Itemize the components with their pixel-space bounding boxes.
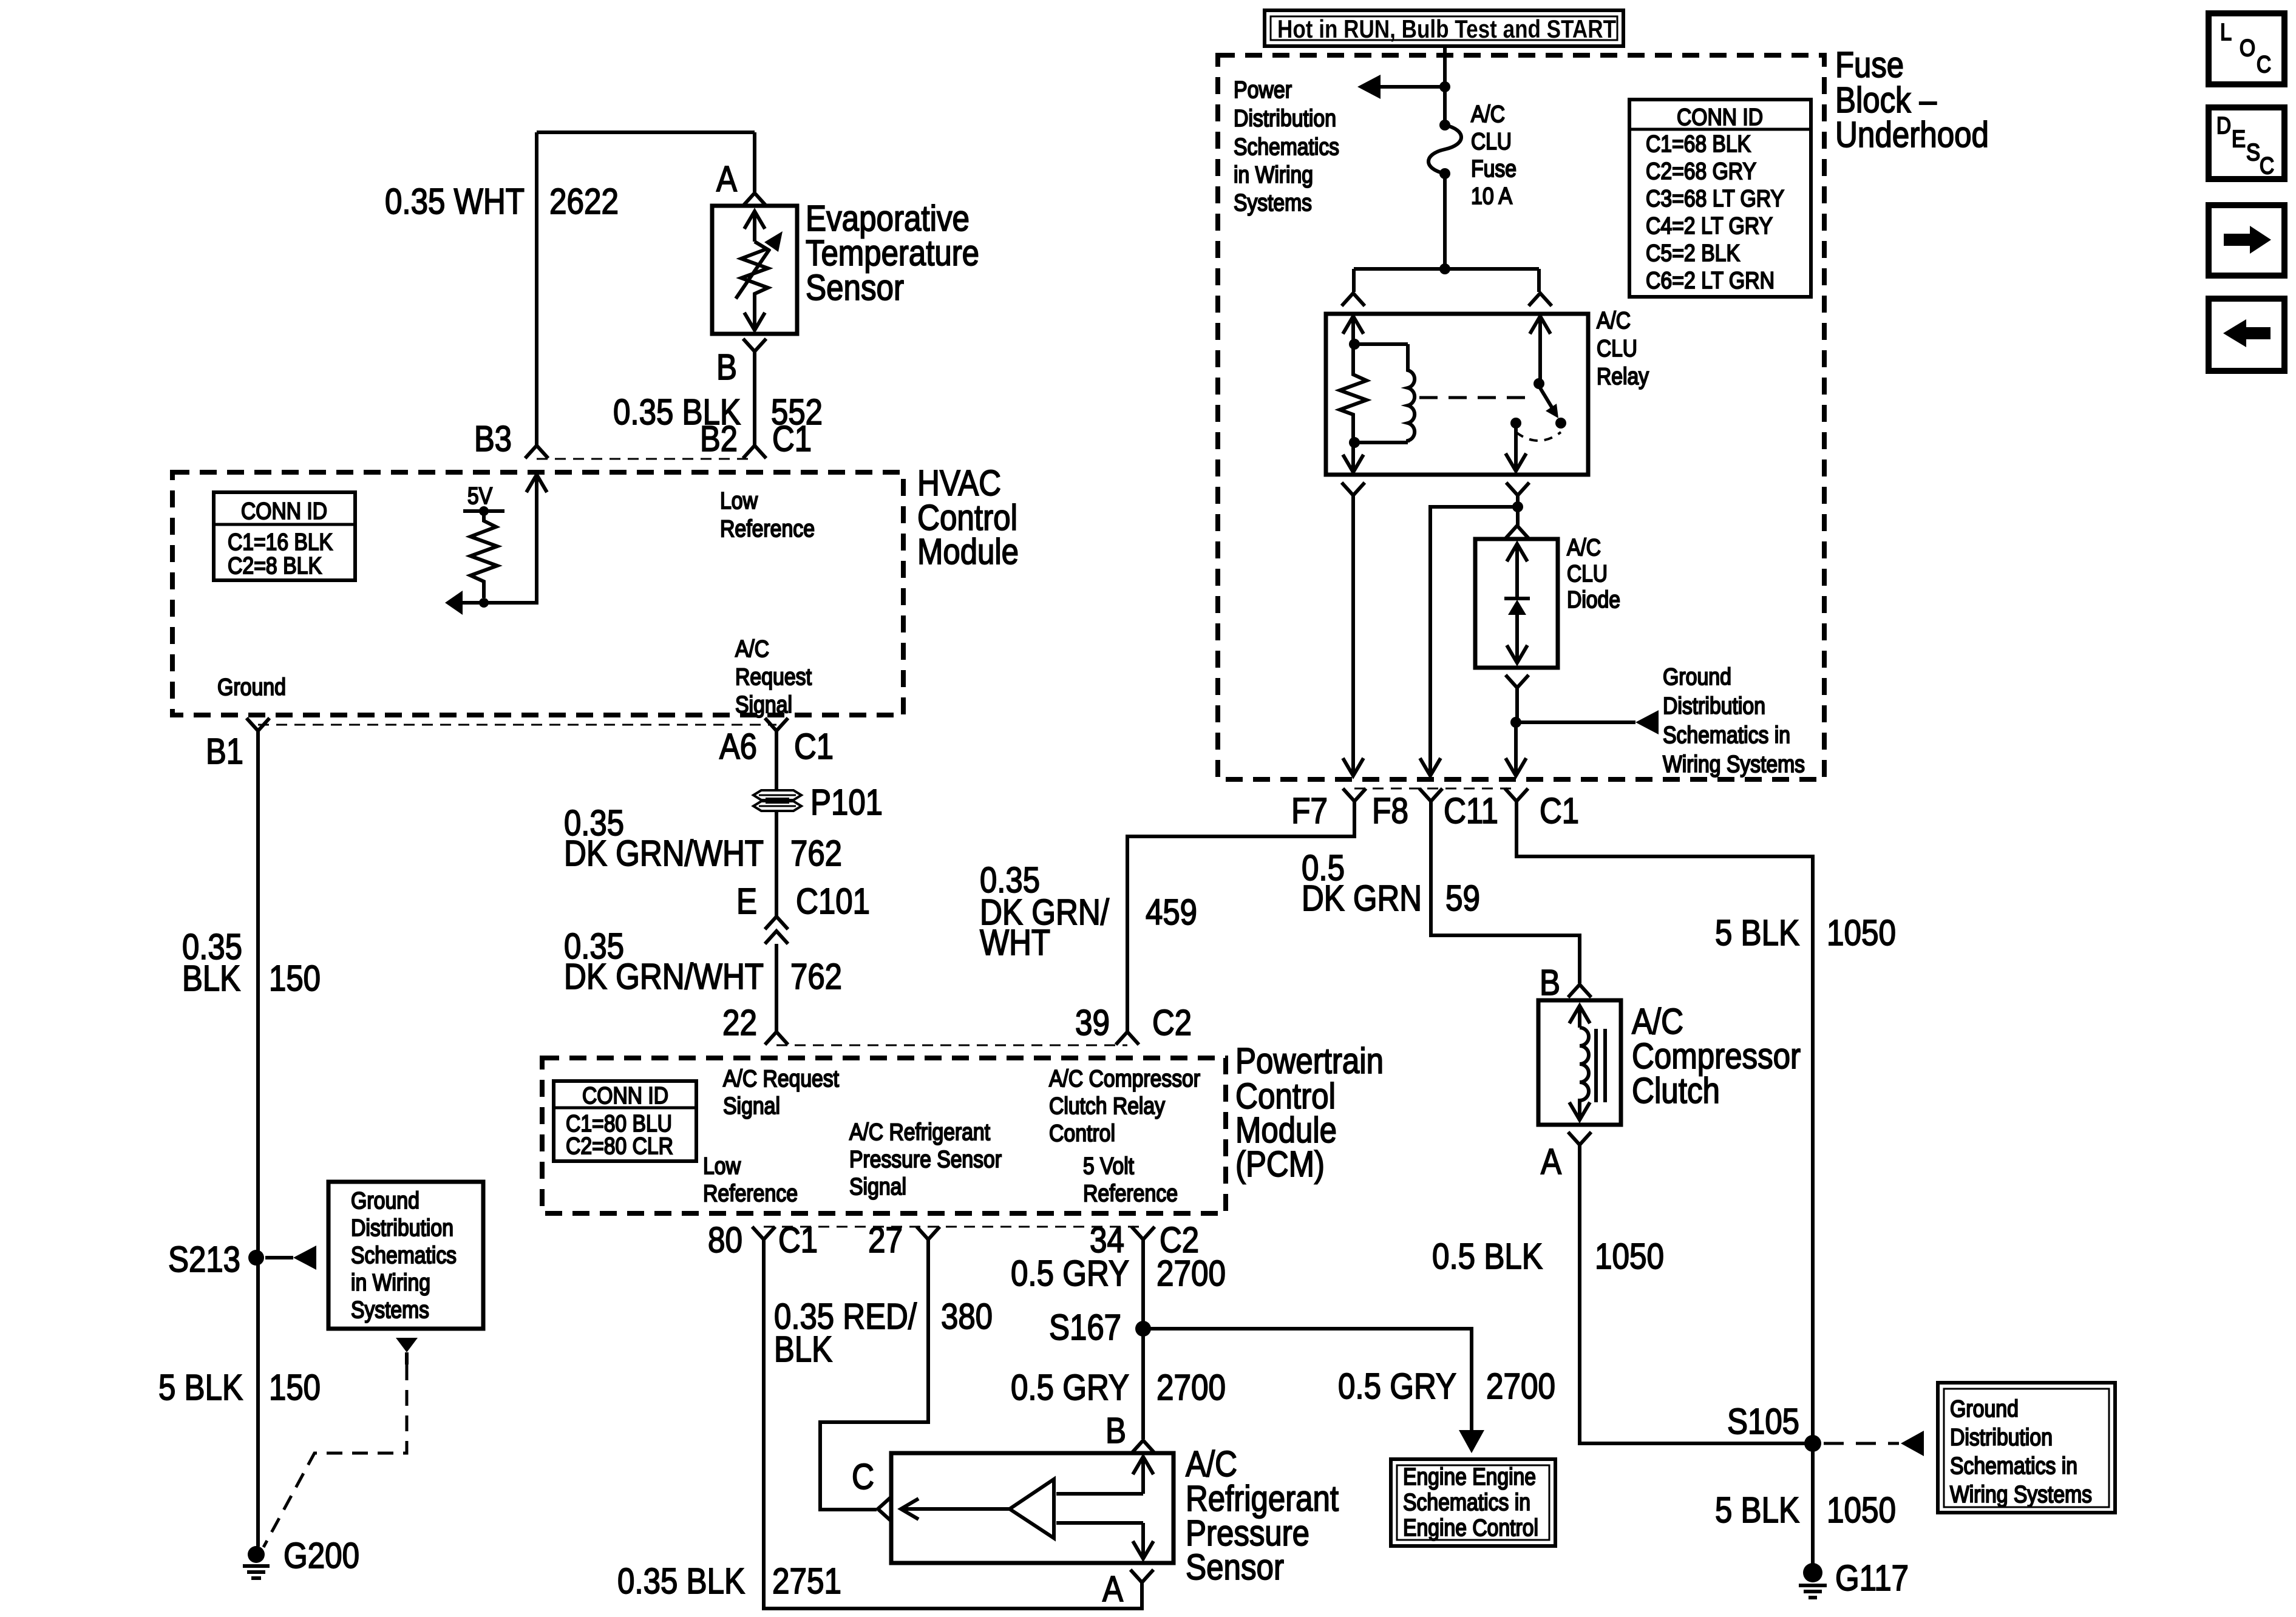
svg-text:A/C: A/C — [1597, 308, 1631, 334]
svg-text:WHT: WHT — [980, 923, 1050, 963]
HVAC control module dashed box — [172, 472, 903, 715]
amplifier triangle — [1010, 1479, 1054, 1538]
relay resistor — [1340, 344, 1367, 442]
previous page arrow icon — [2209, 299, 2284, 371]
svg-text:459: 459 — [1146, 892, 1197, 932]
svg-text:Systems: Systems — [351, 1297, 429, 1323]
wire 762 from A6 to P101 — [775, 731, 778, 790]
terminal chevron C11 C1 — [1505, 788, 1528, 801]
svg-text:Signal: Signal — [723, 1093, 780, 1119]
sensor internal top arrow — [1133, 1457, 1153, 1474]
relay coil — [1408, 344, 1415, 442]
DESC icon box — [2209, 107, 2284, 179]
svg-text:E: E — [736, 881, 757, 921]
wire from branch dot to fuse — [1443, 87, 1447, 125]
diode output arrow — [1515, 615, 1519, 663]
svg-text:in Wiring: in Wiring — [1234, 162, 1313, 188]
wire 2700 from pin 34 to S167 — [1141, 1239, 1145, 1329]
svg-text:CONN ID: CONN ID — [241, 498, 327, 524]
svg-text:39: 39 — [1075, 1003, 1110, 1043]
svg-text:1050: 1050 — [1595, 1236, 1664, 1276]
clutch output arrow — [1578, 1102, 1581, 1120]
svg-text:A/C Request: A/C Request — [723, 1066, 839, 1092]
terminal chevron C — [878, 1497, 891, 1520]
wire from relay coil to F7 — [1351, 495, 1355, 760]
amplifier output line with arrow to pin C — [901, 1507, 1010, 1511]
relay coil output arrow — [1351, 442, 1355, 472]
junction dot at power branch — [1439, 81, 1450, 92]
svg-text:Schematics in: Schematics in — [1950, 1453, 2077, 1479]
relay coil feed stub — [1352, 269, 1356, 292]
svg-text:Wiring Systems: Wiring Systems — [1663, 751, 1805, 778]
relay switch arm — [1539, 386, 1553, 409]
wire switch output to junction — [1516, 495, 1520, 507]
svg-text:C: C — [852, 1457, 874, 1497]
A/C refrigerant pressure sensor box — [891, 1453, 1173, 1563]
relay coil top link — [1354, 342, 1408, 346]
wire 2700 from S167 to sensor pin B — [1141, 1329, 1145, 1439]
sensor internal bottom arrow — [1056, 1521, 1143, 1525]
splice S167 — [1135, 1321, 1151, 1337]
terminal link dashed line B3-B2 — [537, 458, 755, 460]
svg-text:Schematics in: Schematics in — [1403, 1490, 1530, 1516]
note Ground Distribution Schematics in Wiring Systems (right) — [1938, 1383, 2115, 1513]
terminal chevron B1 — [246, 718, 270, 731]
svg-text:O: O — [2240, 35, 2255, 61]
next page arrow icon — [2209, 205, 2284, 276]
engine schematics note box — [1391, 1459, 1555, 1546]
terminal link dashed line 22-39 — [776, 1045, 1127, 1046]
svg-text:Engine Engine: Engine Engine — [1403, 1464, 1536, 1490]
svg-text:B3: B3 — [474, 419, 512, 459]
svg-text:C1=68 BLK: C1=68 BLK — [1646, 131, 1751, 157]
svg-text:Distribution: Distribution — [1950, 1425, 2053, 1451]
wire diode to ground branch dot — [1515, 688, 1519, 722]
svg-text:(PCM): (PCM) — [1235, 1144, 1325, 1184]
diode symbol — [1504, 597, 1530, 600]
svg-text:Engine Control: Engine Control — [1403, 1515, 1538, 1541]
terminal chevron 39 — [1116, 1032, 1139, 1045]
terminal chevron clutch B — [1568, 985, 1591, 997]
svg-text:A/C Compressor: A/C Compressor — [1049, 1066, 1200, 1092]
svg-text:150: 150 — [269, 1368, 321, 1408]
svg-text:B: B — [716, 347, 737, 387]
svg-text:BLK: BLK — [182, 958, 240, 998]
A/C compressor clutch box — [1538, 1000, 1621, 1125]
terminal chevron clutch A — [1568, 1132, 1591, 1145]
svg-text:Relay: Relay — [1597, 364, 1649, 390]
svg-text:Reference: Reference — [1083, 1181, 1178, 1207]
svg-text:762: 762 — [790, 957, 842, 997]
svg-text:59: 59 — [1445, 878, 1480, 918]
relay switch output arrow — [1514, 427, 1518, 471]
svg-text:C6=2 LT GRN: C6=2 LT GRN — [1646, 268, 1775, 294]
svg-text:2751: 2751 — [772, 1561, 841, 1601]
wire junction to diode — [1516, 507, 1520, 526]
svg-text:A/C: A/C — [1567, 535, 1601, 561]
svg-text:Fuse: Fuse — [1471, 156, 1517, 182]
svg-text:B: B — [1106, 1411, 1126, 1451]
terminal link dashed line F7-F8-C11 — [1354, 788, 1517, 790]
svg-text:0.5 BLK: 0.5 BLK — [1432, 1236, 1543, 1276]
terminal chevron relay switch output — [1506, 483, 1529, 495]
svg-text:C: C — [2257, 52, 2271, 78]
svg-text:DK GRN: DK GRN — [1302, 878, 1422, 918]
wire 150 from B1 to G200 — [256, 731, 260, 1547]
connector C101 double chevron — [765, 917, 788, 929]
svg-text:Low: Low — [720, 488, 758, 514]
svg-text:S213: S213 — [168, 1239, 240, 1280]
svg-text:S: S — [2246, 140, 2260, 166]
down arrow at F7 edge — [1343, 758, 1364, 776]
svg-text:C2: C2 — [1152, 1003, 1192, 1043]
HVAC CONN ID table box — [214, 492, 355, 580]
svg-text:Control: Control — [1049, 1120, 1115, 1147]
svg-text:Request: Request — [735, 664, 812, 690]
svg-text:Fuse: Fuse — [1835, 45, 1904, 85]
A/C CLU fuse element — [1439, 120, 1450, 131]
svg-text:A: A — [716, 159, 738, 199]
svg-text:G200: G200 — [284, 1536, 359, 1576]
wire 552 from sensor B to HVAC C1 — [753, 351, 756, 445]
svg-text:A/C: A/C — [735, 636, 769, 662]
terminal chevron B pressure sensor — [1132, 1440, 1155, 1453]
svg-text:Sensor: Sensor — [1186, 1547, 1284, 1587]
svg-text:Reference: Reference — [720, 516, 815, 542]
wire 1050 from C11 to S105 and G117 — [1517, 801, 1813, 1565]
svg-text:Ground: Ground — [351, 1188, 419, 1214]
fuse block CONN ID table box — [1629, 100, 1811, 297]
svg-text:Powertrain: Powertrain — [1235, 1041, 1384, 1081]
variable resistor zigzag — [741, 242, 768, 300]
terminal chevron 22 — [765, 1032, 788, 1045]
svg-text:C2=80 CLR: C2=80 CLR — [566, 1133, 673, 1159]
svg-text:Ground: Ground — [217, 674, 286, 700]
svg-text:Signal: Signal — [849, 1174, 906, 1200]
svg-text:10 A: 10 A — [1471, 183, 1512, 209]
svg-text:Distribution: Distribution — [1663, 693, 1765, 719]
svg-text:80: 80 — [708, 1220, 742, 1260]
wire 2622 vertical drop to B3 — [535, 132, 538, 445]
svg-text:5 BLK: 5 BLK — [158, 1368, 243, 1408]
svg-text:in Wiring: in Wiring — [351, 1270, 430, 1296]
svg-text:B: B — [1540, 963, 1560, 1003]
svg-text:A: A — [1102, 1569, 1124, 1609]
off-page arrow at S213 — [265, 1256, 293, 1259]
terminal chevron relay coil output — [1342, 483, 1365, 495]
svg-text:2622: 2622 — [549, 181, 619, 222]
ground G117 symbol — [1803, 1563, 1822, 1582]
svg-text:C1: C1 — [772, 419, 812, 459]
dashed off-page link at S105 — [1824, 1442, 1899, 1445]
svg-text:Sensor: Sensor — [806, 268, 904, 308]
svg-text:5 BLK: 5 BLK — [1715, 913, 1799, 953]
terminal chevron B2 C1 — [743, 446, 766, 458]
svg-text:C: C — [2260, 153, 2274, 179]
terminal chevron relay switch input — [1529, 293, 1552, 306]
svg-text:Diode: Diode — [1567, 587, 1620, 613]
wire 762 from C101 to PCM pin 22 — [775, 944, 778, 1032]
PCM CONN ID table box — [554, 1081, 696, 1161]
svg-text:C1: C1 — [778, 1220, 818, 1260]
svg-text:0.5 GRY: 0.5 GRY — [1011, 1368, 1129, 1408]
terminal chevron A — [743, 193, 766, 206]
svg-text:0.35 BLK: 0.35 BLK — [617, 1561, 745, 1601]
svg-text:2700: 2700 — [1156, 1253, 1226, 1293]
terminal chevron 27 — [917, 1227, 940, 1239]
wire 2751 from pin 80 to sensor pin A — [764, 1239, 1142, 1609]
svg-text:Module: Module — [917, 532, 1019, 572]
svg-text:5 Volt: 5 Volt — [1083, 1153, 1134, 1179]
svg-text:1050: 1050 — [1827, 913, 1896, 953]
wire 2622 top run from B3 to sensor pin A — [537, 131, 755, 134]
svg-text:Underhood: Underhood — [1835, 115, 1989, 155]
svg-text:G117: G117 — [1835, 1558, 1909, 1598]
svg-text:C3=68 LT GRY: C3=68 LT GRY — [1646, 186, 1784, 212]
junction dot diode ground branch — [1510, 717, 1521, 728]
svg-text:E: E — [2232, 126, 2246, 152]
svg-text:Distribution: Distribution — [351, 1215, 453, 1241]
svg-text:Systems: Systems — [1234, 190, 1312, 216]
A/C CLU relay box — [1326, 314, 1588, 475]
svg-text:Ground: Ground — [1663, 664, 1731, 690]
clutch coil — [1580, 1028, 1589, 1102]
relay control dashed link — [1419, 396, 1532, 399]
svg-text:BLK: BLK — [774, 1329, 832, 1369]
sensor internal arrow down — [753, 300, 756, 330]
svg-text:Hot in RUN, Bulb Test and STAR: Hot in RUN, Bulb Test and START — [1277, 15, 1616, 43]
sensor internal arrow up — [744, 211, 765, 229]
junction dot at resistor bottom — [479, 598, 489, 608]
wire 459 from pin 39 up to F7 — [1127, 802, 1354, 1032]
terminal chevron 80 — [752, 1227, 775, 1239]
svg-text:D: D — [2216, 113, 2231, 139]
relay branch wire — [1354, 267, 1539, 271]
svg-text:F8: F8 — [1372, 791, 1408, 831]
relay switch feed stub — [1537, 269, 1541, 292]
svg-text:Signal: Signal — [735, 692, 792, 718]
internal wire from B3 to resistor node — [526, 475, 547, 492]
svg-text:Clutch Relay: Clutch Relay — [1049, 1093, 1165, 1119]
svg-text:Wiring Systems: Wiring Systems — [1950, 1482, 2092, 1508]
wire 762 from P101 to C101 — [775, 811, 778, 917]
terminal chevron 34 — [1132, 1227, 1155, 1239]
svg-text:2700: 2700 — [1156, 1368, 1226, 1408]
svg-text:S167: S167 — [1049, 1307, 1121, 1347]
terminal chevron A6 C1 — [765, 718, 788, 731]
relay coil bottom link — [1354, 441, 1408, 444]
svg-text:0.5 GRY: 0.5 GRY — [1011, 1253, 1129, 1293]
terminal chevron diode output — [1506, 675, 1529, 688]
pass-through grommet P101 — [753, 790, 801, 800]
svg-text:0.5 GRY: 0.5 GRY — [1338, 1366, 1456, 1406]
hot in run feed box — [1265, 10, 1623, 46]
wire segment into sensor pin A — [753, 132, 756, 192]
junction dot relay branch — [1439, 263, 1450, 274]
splice S105 — [1804, 1435, 1821, 1452]
svg-text:C101: C101 — [796, 881, 870, 921]
svg-text:Pressure Sensor: Pressure Sensor — [849, 1147, 1002, 1173]
svg-text:Distribution: Distribution — [1234, 106, 1336, 132]
terminal chevron relay coil input — [1342, 293, 1365, 306]
svg-text:Schematics: Schematics — [351, 1242, 457, 1269]
svg-text:Low: Low — [703, 1153, 741, 1179]
terminal chevron F8 — [1419, 788, 1442, 801]
svg-text:L: L — [2220, 19, 2232, 46]
svg-text:B1: B1 — [206, 731, 243, 771]
relay switch dashed travel arc — [1516, 432, 1561, 441]
svg-text:DK GRN/WHT: DK GRN/WHT — [564, 957, 764, 997]
ground distribution off-page arrow right — [1516, 720, 1635, 724]
A/C CLU diode box — [1475, 539, 1558, 668]
svg-text:Schematics: Schematics — [1234, 134, 1339, 160]
fuse block underhood dashed box — [1218, 55, 1824, 779]
svg-text:S105: S105 — [1727, 1402, 1799, 1442]
wire from fuse to relay branch — [1443, 174, 1447, 269]
svg-text:P101: P101 — [810, 782, 883, 822]
svg-text:DK GRN/WHT: DK GRN/WHT — [564, 833, 764, 873]
LOC icon box — [2209, 13, 2284, 84]
svg-text:CONN ID: CONN ID — [1677, 104, 1763, 131]
svg-text:Ground: Ground — [1950, 1396, 2019, 1422]
terminal link dashed line B1-A6 — [258, 724, 776, 726]
svg-text:C1=16 BLK: C1=16 BLK — [228, 529, 333, 555]
ground G200 symbol — [248, 1546, 265, 1563]
junction dot switch output — [1512, 501, 1523, 512]
svg-text:150: 150 — [269, 958, 321, 998]
svg-text:CONN ID: CONN ID — [582, 1083, 668, 1109]
powertrain control module dashed box — [542, 1058, 1226, 1213]
power distribution off-page arrow — [1381, 85, 1445, 89]
svg-text:C1: C1 — [1540, 791, 1579, 831]
svg-text:Clutch: Clutch — [1632, 1071, 1720, 1111]
svg-text:Schematics in: Schematics in — [1663, 722, 1790, 748]
svg-text:5 BLK: 5 BLK — [1715, 1490, 1799, 1530]
svg-text:A/C Refrigerant: A/C Refrigerant — [849, 1119, 990, 1145]
svg-text:27: 27 — [868, 1220, 903, 1260]
diode input arrow — [1507, 544, 1527, 561]
ground arrow from resistor — [463, 601, 484, 605]
svg-text:C5=2 BLK: C5=2 BLK — [1646, 240, 1740, 266]
relay coil input arrow — [1343, 316, 1364, 334]
splice S213 — [248, 1250, 264, 1266]
svg-text:2700: 2700 — [1486, 1366, 1555, 1406]
svg-text:C1: C1 — [794, 727, 834, 767]
svg-text:Power: Power — [1234, 77, 1292, 103]
svg-text:Reference: Reference — [703, 1181, 798, 1207]
terminal link dashed line 80-27-34 — [764, 1226, 1143, 1228]
svg-text:F7: F7 — [1291, 791, 1328, 831]
wire 380 from pin 27 to sensor pin C — [820, 1239, 928, 1510]
wire branch to F8 — [1430, 507, 1518, 760]
clutch plate bars — [1594, 1029, 1598, 1102]
svg-text:C4=2 LT GRY: C4=2 LT GRY — [1646, 213, 1773, 239]
svg-text:CLU: CLU — [1597, 336, 1637, 362]
svg-text:762: 762 — [790, 833, 842, 873]
svg-text:CLU: CLU — [1471, 129, 1512, 155]
terminal chevron diode input — [1506, 526, 1529, 538]
svg-text:A/C: A/C — [1471, 101, 1505, 127]
svg-text:C2=8 BLK: C2=8 BLK — [228, 553, 322, 579]
evaporative temperature sensor box — [712, 206, 797, 334]
wire diode branch to C11 edge — [1514, 722, 1518, 760]
svg-text:22: 22 — [722, 1003, 757, 1043]
relay switch pivot dot — [1533, 378, 1544, 389]
svg-text:C2=68 GRY: C2=68 GRY — [1646, 158, 1756, 185]
svg-text:5V: 5V — [467, 483, 492, 509]
terminal chevron A pressure sensor — [1130, 1570, 1153, 1582]
svg-text:CLU: CLU — [1567, 561, 1608, 587]
svg-text:B2: B2 — [700, 419, 738, 459]
svg-text:1050: 1050 — [1827, 1490, 1896, 1530]
wire 2700 branch from S167 to engine schematics — [1143, 1329, 1472, 1430]
terminal chevron B3 — [525, 446, 548, 458]
svg-text:380: 380 — [941, 1297, 993, 1337]
wire 1050 from clutch A to S105 — [1580, 1145, 1805, 1443]
ground distribution note box left — [328, 1182, 483, 1329]
pullup resistor — [470, 511, 497, 598]
variable-resistor diagonal arrow — [736, 249, 770, 299]
svg-text:0.35 WHT: 0.35 WHT — [385, 181, 525, 222]
clutch input arrow — [1569, 1006, 1590, 1023]
terminal chevron F7 — [1343, 788, 1366, 801]
svg-text:A: A — [1541, 1142, 1562, 1182]
relay coil bottom junction dot — [1349, 437, 1360, 448]
feed wire from hot box — [1443, 46, 1447, 87]
relay coil top junction dot — [1349, 339, 1360, 350]
down arrow at C11 edge — [1506, 758, 1526, 776]
junction dot under 5V bar — [479, 506, 489, 516]
down arrow at F8 edge — [1420, 758, 1441, 776]
wire 59 from F8 to clutch pin B — [1431, 801, 1580, 983]
relay switch contact dots — [1510, 418, 1521, 429]
pointer arrow below note box — [396, 1338, 418, 1352]
terminal chevron B — [743, 339, 766, 351]
svg-text:A6: A6 — [719, 727, 757, 767]
dashed route from note box to G200 — [263, 1364, 407, 1547]
relay switch input arrow — [1530, 316, 1550, 334]
svg-text:C11: C11 — [1444, 791, 1498, 831]
5V supply bar — [463, 509, 504, 513]
